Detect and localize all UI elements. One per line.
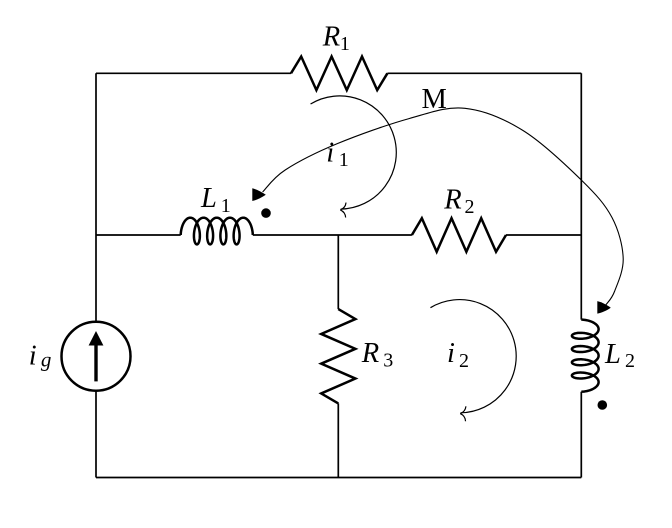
mutual inductance curve M [252, 108, 623, 314]
label L2 [604, 339, 635, 372]
dot L2 [598, 400, 608, 410]
svg-text:2: 2 [465, 196, 475, 218]
svg-text:3: 3 [383, 349, 393, 371]
label R1 [322, 22, 350, 55]
mesh current arrow i2 [430, 300, 516, 422]
wire right-upper [580, 73, 582, 319]
dot L1 [261, 208, 271, 218]
wire top-left [96, 72, 291, 74]
svg-text:R: R [443, 185, 461, 216]
wire right-lower [580, 392, 582, 478]
label ig [29, 341, 52, 372]
svg-text:i: i [326, 137, 334, 168]
inductor L1 [181, 218, 253, 245]
inductor L2 [572, 320, 599, 392]
wire left-lower [95, 391, 97, 478]
wire bottom [96, 477, 581, 479]
resistor R2 [412, 218, 506, 252]
label M [422, 84, 447, 115]
svg-text:1: 1 [221, 195, 231, 217]
label i2 [447, 338, 469, 372]
svg-text:i: i [29, 341, 37, 372]
label R2 [443, 185, 474, 218]
svg-text:M: M [422, 84, 447, 115]
svg-text:1: 1 [340, 33, 350, 55]
wire center vertical upper [337, 235, 339, 309]
svg-text:i: i [447, 338, 455, 369]
mesh current arrow i1 [311, 96, 397, 218]
resistor R3 [321, 309, 355, 403]
label R3 [361, 338, 394, 371]
svg-text:2: 2 [625, 350, 635, 372]
wire middle-center [253, 234, 412, 236]
svg-text:R: R [322, 22, 340, 53]
wire middle-right [506, 234, 581, 236]
svg-text:1: 1 [339, 149, 349, 171]
svg-text:g: g [41, 348, 52, 372]
wire left-upper [95, 73, 97, 321]
svg-text:L: L [604, 339, 621, 370]
resistor R1 [291, 57, 387, 91]
svg-text:L: L [200, 183, 217, 214]
svg-text:R: R [361, 338, 379, 369]
wire top-right [387, 72, 581, 74]
label i1 [326, 137, 349, 170]
wire middle-left [96, 234, 181, 236]
wire center vertical lower [337, 403, 339, 477]
svg-text:2: 2 [459, 350, 469, 372]
label L1 [200, 183, 231, 217]
current source ig [62, 322, 131, 391]
